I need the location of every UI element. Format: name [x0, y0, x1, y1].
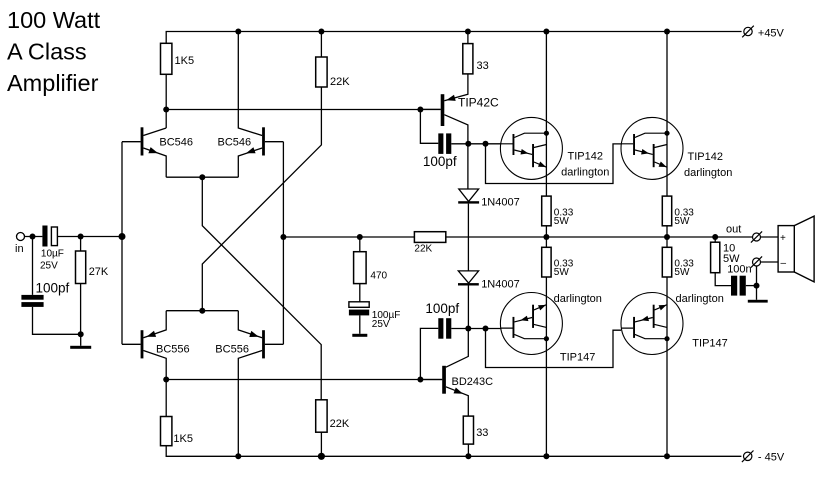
wire R14 to C6 — [715, 273, 731, 286]
svg-text:470: 470 — [370, 271, 387, 282]
node BC556 emitter junction — [199, 308, 205, 314]
resistor R9 33 bottom — [463, 416, 473, 444]
wire rail to R14 — [714, 237, 716, 242]
node Q3 collector junction — [163, 377, 169, 383]
svg-text:A Class: A Class — [7, 39, 87, 65]
svg-text:25V: 25V — [372, 319, 390, 330]
transistor Q3 BC556 left — [122, 311, 166, 380]
svg-text:TIP147: TIP147 — [560, 352, 595, 364]
resistor R14 10 5W — [711, 242, 720, 273]
svg-text:27K: 27K — [89, 266, 109, 278]
wire BC556 emitter rail — [166, 310, 238, 312]
resistor R1 1K5 top — [161, 43, 172, 74]
node Q4 collector rail junction — [235, 453, 241, 459]
node input junction A — [30, 234, 36, 240]
node output R14 junction — [712, 234, 718, 240]
svg-text:TIP42C: TIP42C — [458, 96, 499, 110]
svg-text:100pf: 100pf — [423, 154, 457, 169]
svg-text:darlington: darlington — [554, 293, 602, 305]
wire R13 to U4 to -45V — [666, 277, 668, 456]
svg-text:–: – — [781, 258, 787, 269]
wire D2 to BD243C collector node — [467, 286, 469, 329]
svg-text:1N4007: 1N4007 — [481, 279, 520, 291]
svg-text:100 Watt: 100 Watt — [7, 7, 101, 33]
wire BD243C base drop — [420, 328, 438, 379]
svg-text:5W: 5W — [554, 267, 570, 278]
node output junction left — [543, 234, 549, 240]
wire TIP147 bases link — [486, 329, 622, 368]
wire feedback rail left — [283, 236, 414, 238]
node R7 rail junction — [318, 453, 325, 460]
svg-text:+: + — [780, 233, 786, 244]
node Q1 collector junction — [163, 107, 169, 113]
wire TIP42C collector to D1 — [467, 144, 469, 189]
wire rail to R5 — [359, 237, 361, 252]
node +45V terminal — [742, 26, 754, 38]
node input terminal — [17, 233, 25, 241]
wire output rail to R13 — [666, 237, 668, 247]
node after C1 — [78, 234, 84, 240]
svg-text:BC546: BC546 — [218, 137, 252, 149]
wire R11 to output rail — [666, 226, 668, 237]
svg-text:darlington: darlington — [561, 167, 609, 179]
wire +45V to R4 — [320, 32, 322, 58]
svg-text:BC556: BC556 — [215, 344, 249, 356]
svg-text:in: in — [15, 243, 24, 255]
node output junction right — [664, 234, 670, 240]
svg-text:33: 33 — [477, 60, 489, 72]
svg-text:22K: 22K — [330, 76, 350, 88]
ground input — [70, 334, 91, 349]
wire collector rail to TIP42C base — [166, 109, 441, 111]
resistor R4 22K top — [316, 57, 327, 87]
node U2 rail junction — [664, 29, 670, 35]
svg-text:TIP142: TIP142 — [568, 151, 603, 163]
wire C2 to ground rail — [33, 307, 81, 334]
svg-text:5W: 5W — [674, 216, 690, 227]
capacitor C4 100pf top — [438, 133, 451, 154]
transistor Q4 BC556 right — [238, 311, 283, 457]
svg-text:1N4007: 1N4007 — [481, 197, 520, 209]
svg-text:BC546: BC546 — [159, 137, 193, 149]
wire C6 to ground node — [746, 285, 757, 287]
wire D1 to D2 — [467, 204, 469, 271]
transistor Q1 BC546 left — [122, 127, 166, 177]
wire +45V to R8 — [467, 32, 469, 44]
wire out terminal to speaker — [761, 236, 779, 238]
wire node to R2 — [80, 237, 82, 252]
capacitor C6 100n — [731, 276, 746, 296]
node bias bottom junction — [465, 326, 471, 332]
node -45V terminal — [742, 451, 754, 463]
svg-text:BC556: BC556 — [156, 344, 190, 356]
svg-text:5W: 5W — [674, 267, 690, 278]
resistor R7 22K bottom — [316, 400, 327, 432]
wire R2 to ground node — [80, 284, 82, 335]
node input ground junction — [78, 331, 84, 337]
node Q2 collector to +45V junction — [235, 29, 241, 35]
wire C5 to TIP147 base rail — [451, 328, 501, 330]
diode D1 1N4007 — [458, 189, 479, 204]
transistor U1 TIP142 darlington left — [500, 117, 562, 179]
wire +45V top rail — [166, 32, 741, 44]
svg-text:25V: 25V — [40, 261, 58, 272]
resistor R6 22K feedback — [414, 232, 445, 243]
svg-text:- 45V: - 45V — [758, 452, 785, 464]
node feedback junction — [280, 234, 286, 240]
node U3 rail junction — [543, 453, 549, 459]
node out terminal — [751, 231, 762, 242]
resistor R5 470 — [354, 252, 367, 284]
wire C1 to input node — [57, 236, 122, 238]
transistor U2 TIP142 darlington right — [621, 117, 683, 179]
capacitor C2 100pf input — [21, 295, 43, 307]
resistor R11 0.33 upper right — [662, 196, 671, 226]
node TIP147 base junction — [483, 326, 489, 332]
node speaker minus terminal — [751, 256, 762, 267]
wire R12 to U3 to -45V — [545, 277, 547, 456]
wire right bases feedback vertical — [282, 142, 284, 345]
svg-text:darlington: darlington — [676, 293, 724, 305]
wire cross link R4 to PNP emitters — [202, 87, 321, 311]
svg-text:TIP147: TIP147 — [692, 338, 727, 350]
svg-text:100pf: 100pf — [36, 281, 70, 296]
svg-text:10µF: 10µF — [41, 249, 64, 260]
svg-text:33: 33 — [476, 427, 488, 439]
wire feedback rail right — [446, 236, 753, 238]
node U4 rail junction — [664, 453, 670, 459]
wire TIP42C base to C4 — [420, 109, 438, 143]
capacitor C5 100pf bottom — [438, 318, 451, 339]
capacitor C1 10uF — [42, 226, 57, 247]
node R8 rail junction — [465, 29, 471, 35]
svg-text:out: out — [726, 224, 741, 236]
svg-text:BD243C: BD243C — [452, 376, 494, 388]
svg-text:22K: 22K — [330, 418, 350, 430]
wire R7 to -45V rail — [320, 432, 322, 456]
svg-text:Amplifier: Amplifier — [7, 70, 99, 96]
svg-text:22K: 22K — [414, 244, 432, 255]
svg-text:TIP142: TIP142 — [688, 151, 723, 163]
wire driver rail to BD243C base — [166, 379, 442, 381]
wire -45V bottom rail — [166, 446, 741, 457]
ground C3 — [352, 315, 367, 336]
wire Q3 collector to R3 — [165, 380, 167, 417]
svg-text:1K5: 1K5 — [173, 433, 193, 445]
transistor U3 TIP147 darlington left — [500, 293, 562, 355]
wire BC546 emitter rail — [166, 176, 238, 178]
resistor R12 0.33 lower left — [542, 247, 551, 277]
node input base junction — [119, 233, 126, 240]
resistor R3 1K5 bottom — [161, 417, 172, 446]
node TIP142 base junction — [483, 141, 489, 147]
node R5 top junction — [357, 234, 363, 240]
node TIP42C base junction — [417, 107, 423, 113]
resistor R10 0.33 upper left — [542, 196, 551, 226]
wire C2 drop — [32, 237, 34, 295]
wire R5 to C3 — [359, 284, 361, 302]
wire C4 to darlington base rail — [451, 143, 501, 145]
wire +45V to U1 collector — [545, 32, 547, 197]
wire R9 to -45V rail — [467, 444, 469, 456]
wire TIP142 bases link — [486, 144, 622, 184]
node R4 rail junction — [318, 29, 324, 35]
node bias top junction — [465, 141, 471, 147]
node C6 ground junction — [754, 283, 760, 289]
transistor U4 TIP147 darlington right — [621, 293, 683, 355]
transistor Q2 BC546 right — [238, 32, 283, 178]
ground output — [748, 300, 768, 303]
transistor Q5 TIP42C — [420, 74, 468, 144]
node BD243C base junction — [417, 377, 423, 383]
svg-text:darlington: darlington — [684, 167, 732, 179]
svg-text:+45V: +45V — [758, 28, 785, 40]
wire minus terminal to speaker — [761, 261, 779, 263]
transistor Q6 BD243C — [420, 329, 468, 417]
node U1 rail junction — [543, 29, 549, 35]
svg-text:100pf: 100pf — [425, 301, 459, 316]
svg-text:100n: 100n — [727, 264, 751, 276]
resistor R2 27K — [76, 251, 86, 284]
speaker LS1 — [778, 216, 814, 282]
wire cross link NPN emitters to R7 — [202, 177, 321, 400]
diode D2 1N4007 — [458, 271, 479, 286]
wire R1 to collector rail — [165, 74, 167, 128]
wire +45V to U2 collector — [666, 32, 668, 197]
capacitor C3 100uF — [349, 302, 369, 316]
wire minus terminal down — [756, 266, 758, 300]
resistor R13 0.33 lower right — [662, 247, 671, 277]
svg-text:1K5: 1K5 — [175, 55, 195, 67]
wire left bases vertical — [121, 142, 123, 345]
svg-text:5W: 5W — [554, 216, 570, 227]
node BC546 emitter junction — [199, 174, 205, 180]
node R9 rail junction — [465, 453, 471, 459]
resistor R8 33 top — [463, 44, 473, 74]
wire output rail to R12 — [545, 237, 547, 247]
wire R10 to output rail — [545, 226, 547, 237]
wire input terminal to C1 — [25, 236, 43, 238]
